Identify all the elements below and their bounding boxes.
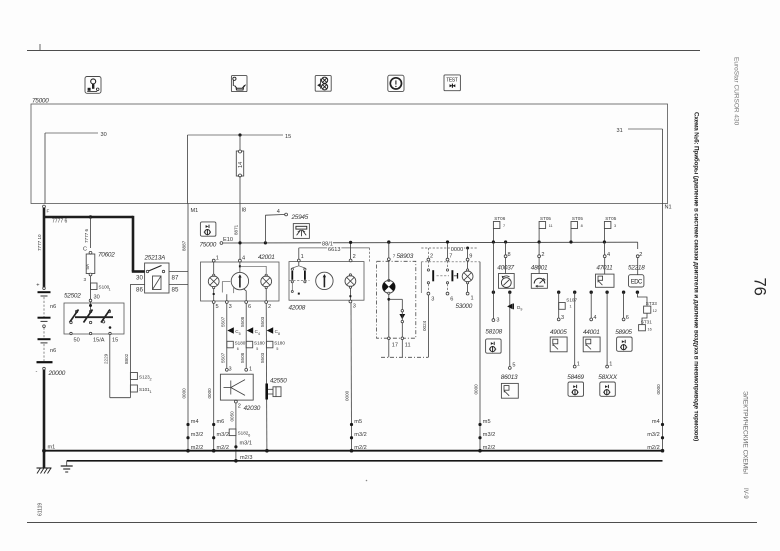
svg-text:ST05: ST05 — [572, 216, 583, 221]
svg-text:6: 6 — [237, 347, 239, 351]
svg-text:3: 3 — [353, 304, 356, 310]
lamp L2 in 42001 — [265, 274, 267, 276]
connector S180-5b — [266, 341, 273, 348]
wire to 58XXX — [606, 292, 608, 365]
svg-text:I8: I8 — [242, 208, 247, 214]
wire to 58905 — [623, 292, 625, 318]
svg-text:58108: 58108 — [485, 329, 502, 336]
pressure contacts in 42008 — [298, 262, 300, 266]
wire 5507 — [226, 303, 228, 368]
svg-text:0000: 0000 — [474, 384, 479, 395]
ground bus m2/3 — [67, 460, 663, 462]
svg-text:25945: 25945 — [291, 214, 309, 221]
svg-text:11: 11 — [549, 224, 553, 228]
start dots row under gauges — [492, 291, 495, 294]
svg-text:1: 1 — [471, 296, 474, 302]
fn icon near E10 — [200, 222, 216, 236]
motor symbol — [383, 281, 396, 294]
svg-text:ST05: ST05 — [540, 216, 551, 221]
battery feed wire 7777 — [43, 205, 46, 208]
connector S100 — [91, 283, 98, 290]
svg-text:m6: m6 — [217, 419, 225, 425]
wire 8887 / 0000 vertical — [187, 204, 189, 451]
connector S101 — [130, 385, 137, 392]
node column m4 right (x662.5) — [662, 204, 664, 451]
svg-text:52502: 52502 — [64, 293, 81, 300]
svg-text:1: 1 — [577, 362, 580, 368]
icon 25945 — [293, 224, 309, 239]
svg-text:5507: 5507 — [220, 352, 225, 363]
svg-text:4: 4 — [258, 332, 260, 336]
svg-text:8887: 8887 — [182, 240, 187, 251]
svg-text:C: C — [83, 247, 87, 253]
wire 30 — [45, 132, 98, 134]
wire relay 87 to 8887 — [169, 271, 188, 273]
svg-text:1: 1 — [609, 362, 612, 368]
svg-text:0000: 0000 — [451, 247, 463, 253]
dashed 0000 link at 53000 — [421, 247, 478, 249]
svg-text:5: 5 — [239, 332, 241, 336]
gauge in 42001 — [239, 262, 241, 273]
svg-text:5: 5 — [256, 347, 258, 351]
svg-text:75000: 75000 — [200, 242, 217, 249]
svg-text:42550: 42550 — [270, 378, 287, 385]
joint wire to 0024 — [381, 356, 428, 358]
svg-text:5507: 5507 — [220, 316, 225, 327]
diode branch in 58903 — [389, 298, 403, 300]
svg-text:7: 7 — [503, 224, 505, 228]
svg-text:30: 30 — [101, 132, 107, 138]
top rule — [27, 50, 700, 52]
svg-text:n6: n6 — [50, 304, 56, 310]
main wire 88/1 bus — [223, 241, 638, 244]
wire 0000 m6 from 42001 pin5 — [213, 303, 215, 450]
svg-text:m2/3: m2/3 — [240, 455, 252, 461]
svg-text:0000: 0000 — [182, 388, 187, 399]
svg-text:EDC: EDC — [631, 280, 643, 286]
pin stubs to gauges — [505, 242, 507, 255]
junction 5503 at bus — [265, 449, 269, 453]
svg-text:15/A: 15/A — [93, 338, 105, 344]
lamp in 42008 — [349, 274, 351, 276]
svg-text:1: 1 — [249, 367, 252, 373]
registration mark — [39, 44, 41, 50]
svg-text:EuroStar CURSOR 430: EuroStar CURSOR 430 — [733, 57, 740, 126]
wire 0024 — [427, 295, 429, 357]
icon brake warning — [388, 75, 404, 91]
svg-text:m3/2: m3/2 — [647, 432, 659, 438]
svg-text:6: 6 — [626, 315, 629, 321]
diode C5 — [227, 327, 234, 333]
svg-text:1: 1 — [570, 305, 572, 309]
node column m6 (x213.7) — [212, 423, 215, 426]
svg-text:IV-9: IV-9 — [742, 488, 748, 499]
svg-text:m3/2: m3/2 — [217, 432, 229, 438]
svg-text:52218: 52218 — [628, 264, 645, 271]
icon key (ignition) — [85, 77, 101, 94]
svg-text:3: 3 — [84, 277, 87, 282]
svg-text:F: F — [47, 209, 50, 214]
gauge in 42008 — [316, 272, 333, 289]
svg-text:4: 4 — [277, 209, 280, 215]
svg-text:7777 6: 7777 6 — [84, 229, 89, 243]
svg-text:4: 4 — [593, 315, 596, 321]
svg-text:S180: S180 — [235, 341, 246, 346]
svg-text:2: 2 — [268, 304, 271, 310]
svg-text:ST05: ST05 — [605, 216, 616, 221]
svg-text:4: 4 — [242, 256, 245, 262]
svg-text:6: 6 — [248, 434, 250, 438]
wire 7777-6 to fuse — [90, 217, 92, 248]
svg-text:70602: 70602 — [98, 252, 115, 259]
svg-text:6613: 6613 — [328, 247, 340, 253]
connector S180-6 — [227, 341, 234, 348]
svg-text:6: 6 — [450, 296, 453, 302]
svg-text:2229: 2229 — [103, 353, 108, 364]
svg-text:E10: E10 — [223, 237, 233, 243]
svg-text:1: 1 — [109, 288, 111, 292]
chassis ground — [37, 467, 52, 469]
svg-text:16: 16 — [648, 327, 652, 331]
svg-text:7777 10: 7777 10 — [37, 234, 42, 251]
svg-text:2: 2 — [639, 252, 642, 258]
svg-text:42001: 42001 — [258, 254, 275, 261]
svg-text:2: 2 — [353, 254, 356, 260]
wire battery to ground bus — [43, 370, 46, 468]
svg-text:9: 9 — [469, 253, 472, 259]
fuse 14 — [239, 135, 241, 151]
svg-text:42008: 42008 — [289, 305, 306, 312]
node column m5 right (x480) — [478, 423, 481, 426]
svg-text:4: 4 — [607, 252, 610, 258]
svg-text:2: 2 — [238, 404, 241, 410]
svg-text:S101: S101 — [139, 387, 150, 392]
svg-text:44001: 44001 — [583, 329, 600, 336]
svg-text:m2/2: m2/2 — [354, 445, 366, 451]
wire 0000 m5-left — [350, 303, 353, 451]
svg-text:S180: S180 — [254, 341, 265, 346]
wire to ST33 — [637, 292, 647, 306]
wire relay 86 — [130, 283, 144, 285]
svg-text:5: 5 — [276, 347, 278, 351]
svg-text:+: + — [36, 283, 39, 289]
main supply frame box — [31, 104, 668, 204]
wire to 44001 — [590, 292, 592, 318]
wire 15 — [188, 134, 284, 136]
svg-text:Схема №6: Приборы (давление в: Схема №6: Приборы (давление в системе см… — [693, 112, 701, 441]
svg-text:n6: n6 — [50, 348, 56, 354]
wire relay 85 — [169, 283, 188, 285]
svg-text:-: - — [36, 368, 38, 374]
svg-text:42030: 42030 — [244, 405, 261, 412]
svg-text:7: 7 — [449, 253, 452, 259]
svg-text:N1: N1 — [665, 205, 672, 211]
svg-text:m3/2: m3/2 — [354, 432, 366, 438]
svg-text:20000: 20000 — [48, 370, 66, 377]
svg-text:50: 50 — [74, 338, 80, 344]
svg-text:14: 14 — [238, 162, 244, 168]
svg-text:58XXX: 58XXX — [598, 374, 618, 381]
svg-text:85: 85 — [172, 287, 179, 294]
svg-text:TEST: TEST — [446, 78, 458, 84]
icon TEST — [444, 75, 460, 91]
svg-text:S182: S182 — [238, 431, 249, 436]
wire 6613 — [299, 247, 370, 249]
svg-text:8: 8 — [508, 252, 511, 258]
svg-text:58903: 58903 — [397, 253, 414, 260]
wire 0050 — [235, 403, 237, 461]
icon gauges stack — [315, 76, 331, 92]
svg-text:0050: 0050 — [229, 411, 234, 422]
svg-text:15: 15 — [285, 134, 291, 140]
svg-text:3: 3 — [496, 318, 499, 324]
svg-text:8871: 8871 — [234, 224, 239, 235]
wire 8871 — [239, 204, 241, 261]
svg-text:25213A: 25213A — [144, 255, 166, 262]
svg-text:m2/2: m2/2 — [217, 445, 229, 451]
svg-text:ST33: ST33 — [646, 301, 657, 306]
svg-text:86: 86 — [136, 287, 143, 294]
svg-text:8802: 8802 — [124, 353, 129, 364]
svg-text:7777 6: 7777 6 — [52, 218, 68, 224]
svg-text:8: 8 — [581, 224, 583, 228]
svg-text:5: 5 — [512, 362, 515, 368]
earth ground — [66, 461, 68, 466]
svg-text:0000: 0000 — [656, 384, 661, 395]
svg-text:3: 3 — [431, 296, 434, 302]
svg-text:0000: 0000 — [345, 390, 350, 401]
diode C4 — [247, 327, 254, 333]
wire 7777-6 horizontal — [44, 216, 133, 219]
svg-text:49005: 49005 — [550, 329, 567, 336]
svg-text:0000: 0000 — [207, 388, 212, 399]
svg-text:ST31: ST31 — [641, 320, 652, 325]
svg-text:53000: 53000 — [456, 303, 473, 310]
branch 25945 — [264, 241, 267, 244]
lamp in 53000 — [467, 269, 469, 271]
svg-text:2: 2 — [150, 378, 152, 382]
svg-text:86013: 86013 — [501, 374, 518, 381]
sender 58903 — [387, 240, 390, 243]
svg-text:15: 15 — [112, 338, 118, 344]
svg-text:S123: S123 — [139, 375, 150, 380]
wire 5503 — [265, 303, 268, 450]
node column m4 (x188) — [186, 423, 189, 426]
svg-text:m4: m4 — [191, 419, 199, 425]
svg-text:m2/2: m2/2 — [647, 445, 659, 451]
svg-text:5A: 5A — [85, 263, 90, 270]
thick wire to relay 30 — [132, 216, 135, 272]
svg-text:0024: 0024 — [422, 320, 427, 331]
svg-text:S107: S107 — [566, 298, 577, 303]
svg-text:1: 1 — [150, 390, 152, 394]
svg-text:5503: 5503 — [260, 316, 265, 327]
svg-text:ST06: ST06 — [494, 216, 505, 221]
svg-text:m4: m4 — [652, 419, 660, 425]
svg-text:m5: m5 — [354, 419, 362, 425]
svg-text:m2/2: m2/2 — [191, 445, 203, 451]
wire to 58469 — [574, 292, 576, 365]
svg-text:m1: m1 — [48, 445, 56, 451]
svg-text:12: 12 — [653, 309, 657, 313]
svg-text:61119: 61119 — [38, 503, 44, 516]
svg-text:3: 3 — [614, 224, 616, 228]
svg-text:5508: 5508 — [240, 316, 245, 327]
svg-text:5: 5 — [216, 304, 219, 310]
svg-text:6: 6 — [248, 304, 251, 310]
diode C8 — [267, 327, 274, 333]
svg-text:m5: m5 — [483, 419, 491, 425]
svg-text:5503: 5503 — [260, 352, 265, 363]
svg-text:11: 11 — [405, 342, 411, 348]
svg-text:1: 1 — [216, 256, 219, 262]
node column m5 left (x351.5) — [350, 423, 353, 426]
connector S180-5a — [246, 341, 253, 348]
svg-text:m3/2: m3/2 — [483, 432, 495, 438]
connector S123 — [130, 373, 137, 380]
wire 8802 — [129, 284, 131, 397]
bus junction dots — [492, 240, 495, 243]
bottom rule — [27, 522, 757, 524]
svg-text:30: 30 — [94, 295, 100, 301]
ground bus m1 — [44, 450, 663, 452]
pins 5 3 6 2 — [212, 301, 215, 304]
svg-text:8: 8 — [278, 332, 280, 336]
wire 5508 — [245, 303, 247, 368]
svg-text:3: 3 — [229, 304, 232, 310]
svg-text:87: 87 — [172, 275, 179, 282]
svg-text:58469: 58469 — [567, 374, 584, 381]
lamp L1 in 42001 — [213, 262, 215, 275]
svg-text:m3/2: m3/2 — [191, 432, 203, 438]
internal link to pin3/6 — [222, 282, 230, 293]
junction battery at bus — [42, 449, 46, 453]
svg-text:31: 31 — [617, 128, 623, 134]
svg-text:5508: 5508 — [240, 352, 245, 363]
svg-text:S180: S180 — [274, 341, 285, 346]
icon oil sump — [231, 76, 247, 92]
svg-text:9: 9 — [520, 308, 522, 312]
svg-text:76: 76 — [751, 278, 769, 296]
svg-text:2: 2 — [430, 253, 433, 259]
svg-text:3: 3 — [229, 367, 232, 373]
wire to 58108 — [492, 242, 494, 319]
svg-text:m2/2: m2/2 — [483, 445, 495, 451]
svg-text:30: 30 — [136, 275, 143, 282]
wire 2229 — [109, 335, 111, 398]
diode D9 + wire to 86013 — [509, 292, 511, 366]
svg-text:m3/1: m3/1 — [240, 440, 252, 446]
node m3/1 column (x235.9) — [229, 429, 236, 436]
svg-text:58905: 58905 — [615, 329, 632, 336]
svg-text:17: 17 — [392, 342, 398, 348]
connector S107-1 — [559, 303, 566, 310]
svg-text:7: 7 — [393, 254, 396, 259]
svg-text:2: 2 — [541, 252, 544, 258]
svg-text:75000: 75000 — [32, 98, 49, 105]
svg-text:1: 1 — [301, 254, 304, 260]
svg-text:M1: M1 — [191, 208, 199, 214]
svg-text:ЭЛЕКТРИЧЕСКИЕ СХЕМЫ: ЭЛЕКТРИЧЕСКИЕ СХЕМЫ — [742, 391, 749, 474]
svg-text:3: 3 — [561, 315, 564, 321]
